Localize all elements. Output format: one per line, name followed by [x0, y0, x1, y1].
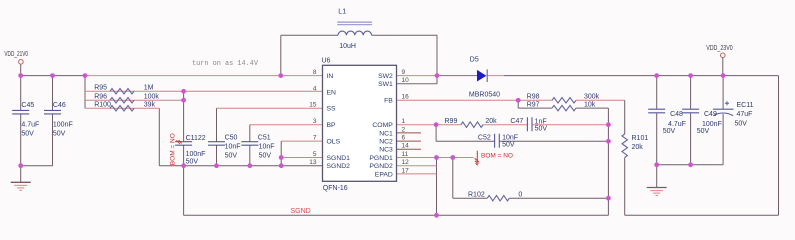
- junction VDD_23V0 EC11: [721, 73, 726, 78]
- svg-text:4: 4: [313, 85, 317, 92]
- wire C45 bottom: [20, 114, 22, 166]
- svg-text:R98: R98: [527, 94, 540, 101]
- wire C46 bottom: [52, 114, 54, 166]
- junction VDD_21V0 / C45: [18, 73, 23, 78]
- wire SW1 row: [397, 83, 438, 85]
- svg-text:VDD_23V0: VDD_23V0: [706, 45, 733, 52]
- wire diode rail to right edge: [504, 75, 779, 77]
- svg-text:R101: R101: [632, 135, 649, 142]
- junction C51 bottom rail: [247, 163, 252, 168]
- svg-text:3: 3: [313, 118, 317, 125]
- wire C46 top: [52, 76, 54, 111]
- svg-text:EPAD: EPAD: [375, 171, 393, 178]
- wire diode cathode stub: [487, 75, 504, 77]
- junction divider vertical: [83, 73, 88, 78]
- wire R98 vertical down to R101: [624, 100, 626, 134]
- svg-text:C45: C45: [21, 102, 34, 109]
- capacitor C49 plates: [682, 109, 699, 113]
- svg-text:SGND2: SGND2: [327, 163, 351, 170]
- wire C47 right plate to vertical: [532, 124, 609, 126]
- no-connect marker on C1122: [177, 140, 182, 144]
- svg-text:BP: BP: [327, 122, 337, 129]
- svg-text:50V: 50V: [735, 120, 748, 127]
- wire C52 row right: [499, 140, 608, 142]
- resistor R100 zigzag: [110, 106, 134, 111]
- svg-text:NC2: NC2: [379, 139, 393, 146]
- capacitor EC11 top plate: [713, 108, 734, 110]
- wire EPAD row: [397, 173, 437, 175]
- resistor R97 zigzag: [552, 105, 576, 110]
- junction SW2 loop: [435, 73, 440, 78]
- junction OLS vertical at SGND1: [279, 155, 284, 160]
- resistor R98 zigzag: [552, 98, 576, 103]
- wire PGND-EPAD vertical to bottom rail: [436, 158, 438, 216]
- wire left ground stem: [20, 166, 22, 183]
- svg-text:SGND1: SGND1: [327, 155, 351, 162]
- svg-text:0: 0: [518, 192, 522, 199]
- svg-text:50V: 50V: [225, 153, 238, 160]
- junction EPAD bottom rail: [434, 213, 439, 218]
- wire top rail VDD_21V0 left part: [21, 75, 85, 77]
- svg-text:VDD_21V0: VDD_21V0: [4, 51, 28, 58]
- capacitor C47 plates: [527, 117, 532, 131]
- resistor R102 zigzag: [487, 196, 509, 201]
- IC U6 body QFN-16: [323, 65, 397, 181]
- svg-text:COMP: COMP: [372, 122, 393, 129]
- junction C50 bottom rail: [214, 163, 219, 168]
- svg-text:R100: R100: [94, 102, 111, 109]
- wire C49 top: [690, 76, 692, 110]
- svg-text:10: 10: [402, 77, 410, 84]
- no-connect marker on PGND1 branch: [475, 151, 480, 165]
- wire inductor loop top left: [281, 34, 338, 36]
- wire R97 row: [518, 107, 552, 109]
- svg-text:39k: 39k: [144, 102, 156, 109]
- wire left ground row: [21, 165, 53, 167]
- svg-text:4.7uF: 4.7uF: [668, 121, 686, 128]
- svg-text:100nF: 100nF: [186, 151, 206, 158]
- svg-text:20k: 20k: [485, 118, 497, 125]
- svg-text:BOM = NO: BOM = NO: [170, 133, 177, 165]
- junction FB R98 R97: [516, 98, 521, 103]
- svg-text:50V: 50V: [535, 126, 548, 133]
- wire COMP row through R99 to C47: [397, 124, 462, 126]
- wire inductor loop top right: [372, 34, 437, 36]
- junction COMP node: [434, 122, 439, 127]
- svg-text:R95: R95: [94, 85, 107, 92]
- wire diode anode segment: [437, 75, 478, 77]
- svg-text:PGND2: PGND2: [369, 163, 393, 170]
- svg-text:1: 1: [402, 118, 406, 125]
- wire C50 top: [216, 108, 218, 141]
- svg-text:SW1: SW1: [378, 81, 393, 88]
- wire bottom SGND rail left piece: [184, 214, 609, 216]
- wire C45 top: [20, 76, 22, 111]
- power symbol circle VDD_21V0: [19, 60, 24, 65]
- wire top rail to IN pin: [85, 75, 323, 77]
- svg-text:100k: 100k: [144, 93, 160, 100]
- svg-text:OLS: OLS: [327, 139, 341, 146]
- svg-text:10uH: 10uH: [339, 43, 356, 50]
- svg-text:16: 16: [402, 94, 410, 101]
- junction C48 ground row: [654, 162, 659, 167]
- svg-text:12: 12: [402, 159, 410, 166]
- capacitor EC11 plus sign: [725, 101, 729, 105]
- wire C49 bottom: [690, 113, 692, 165]
- wire BP row: [250, 124, 323, 126]
- capacitor C46 plates: [44, 110, 61, 114]
- wire SGND1 row: [281, 157, 322, 159]
- wire EC11 bottom: [722, 114, 724, 165]
- svg-text:R96: R96: [94, 93, 107, 100]
- wire EN row to IC: [159, 90, 310, 92]
- svg-text:C50: C50: [225, 135, 238, 142]
- svg-text:C47: C47: [510, 118, 523, 125]
- svg-text:10nF: 10nF: [225, 143, 241, 150]
- svg-text:50V: 50V: [502, 141, 515, 148]
- inductor L1 core lines: [337, 22, 372, 25]
- svg-text:50V: 50V: [186, 159, 199, 166]
- svg-text:100nF: 100nF: [53, 122, 73, 129]
- junction C1122 bottom rail: [181, 163, 186, 168]
- svg-text:11: 11: [402, 151, 409, 158]
- svg-text:2: 2: [402, 126, 406, 133]
- junction C52 right: [606, 139, 611, 144]
- wire right edge vertical: [778, 76, 780, 216]
- capacitor C1122 plates: [175, 142, 192, 146]
- capacitor C52 plates: [495, 134, 500, 148]
- svg-text:R97: R97: [527, 102, 540, 109]
- svg-text:U6: U6: [322, 58, 331, 65]
- svg-text:17: 17: [402, 167, 410, 174]
- wire inductor loop right vertical: [436, 35, 438, 84]
- junction R96 right: [181, 98, 186, 103]
- pin EN stub: [310, 90, 323, 92]
- svg-text:5: 5: [313, 151, 317, 158]
- wire R101 bottom to SGND rail: [624, 157, 626, 215]
- svg-text:1M: 1M: [144, 85, 154, 92]
- wire C50 bottom: [216, 145, 218, 166]
- wire C52 row left: [436, 140, 495, 142]
- wire C51 top: [249, 125, 251, 142]
- resistor R99 zigzag: [461, 122, 483, 127]
- svg-text:8: 8: [313, 69, 317, 76]
- ground symbol left: [11, 182, 31, 190]
- svg-text:47uF: 47uF: [737, 111, 753, 118]
- svg-text:FB: FB: [384, 98, 393, 105]
- svg-text:4.7uF: 4.7uF: [21, 122, 39, 129]
- junction PGND1 R102 branch: [450, 155, 455, 160]
- wire R100 row: [85, 107, 159, 109]
- wire R102 left vertical: [452, 158, 454, 199]
- svg-text:50V: 50V: [21, 131, 34, 138]
- svg-text:turn on as 14.4V: turn on as 14.4V: [192, 60, 258, 68]
- resistor R95 zigzag: [110, 89, 134, 94]
- svg-text:10k: 10k: [584, 102, 596, 109]
- junction C46 top: [50, 73, 55, 78]
- svg-text:100nF: 100nF: [702, 121, 722, 128]
- wire right ground stem: [656, 165, 658, 187]
- svg-text:10nF: 10nF: [259, 143, 275, 150]
- svg-text:7: 7: [313, 135, 317, 142]
- svg-text:EN: EN: [327, 89, 337, 96]
- wire FB row to R98: [397, 99, 553, 101]
- wire EN node vertical to C1122: [183, 91, 185, 141]
- wire EN row R95 pins: [85, 90, 159, 92]
- resistor R101 vertical zigzag: [622, 134, 627, 157]
- junction C49 rail: [688, 73, 693, 78]
- junction OLS vertical at rail: [279, 163, 284, 168]
- svg-text:SGND: SGND: [291, 208, 311, 215]
- svg-text:300k: 300k: [584, 94, 600, 101]
- junction C49 ground row: [688, 162, 693, 167]
- wire R97 drop from FB node: [517, 100, 519, 108]
- svg-text:C1122: C1122: [186, 135, 206, 142]
- resistor R96 zigzag: [110, 98, 134, 103]
- wire inductor loop left vertical: [280, 35, 282, 75]
- wire C48 top: [656, 76, 658, 110]
- diode D5: [477, 69, 487, 82]
- svg-text:1nF: 1nF: [535, 118, 547, 125]
- svg-text:50V: 50V: [663, 128, 676, 135]
- inductor L1 coil: [338, 31, 372, 35]
- wire right ground row: [657, 164, 723, 166]
- svg-text:C49: C49: [704, 111, 717, 118]
- svg-text:R99: R99: [445, 118, 458, 125]
- svg-text:C52: C52: [478, 135, 491, 142]
- pin NC2 stub: [397, 140, 422, 142]
- wire R96 right: [159, 99, 183, 101]
- svg-text:PGND1: PGND1: [369, 155, 393, 162]
- svg-text:6: 6: [402, 135, 406, 142]
- junction C48 rail: [654, 73, 659, 78]
- svg-text:20k: 20k: [632, 144, 644, 151]
- svg-text:R102: R102: [468, 192, 485, 199]
- svg-text:BOM = NO: BOM = NO: [481, 152, 513, 159]
- svg-text:C48: C48: [670, 111, 683, 118]
- ground symbol right: [647, 188, 667, 196]
- junction C47 right: [606, 122, 611, 127]
- wire divider vertical from rail: [84, 76, 86, 109]
- wire R96 row pins: [85, 99, 159, 101]
- svg-text:D5: D5: [470, 57, 479, 64]
- wire R99 to C47 left plate: [483, 124, 527, 126]
- wire VDD_23V0 stem: [722, 58, 724, 76]
- wire SS row: [217, 107, 323, 109]
- wire OLS row: [281, 140, 322, 142]
- wire PGND2 row: [397, 165, 437, 167]
- wire right mid vertical to bottom rail: [607, 108, 609, 215]
- svg-text:9: 9: [402, 69, 406, 76]
- wire COMP vertical to C52 row: [435, 125, 437, 142]
- svg-text:50V: 50V: [259, 153, 272, 160]
- svg-text:15: 15: [309, 102, 317, 109]
- wire C1122 column down to bottom SGND rail: [183, 166, 185, 216]
- svg-text:NC1: NC1: [379, 130, 393, 137]
- wire SW2 row: [397, 75, 438, 77]
- wire C1122 bottom: [183, 145, 185, 166]
- wire VDD_21V0 stem: [20, 64, 22, 76]
- svg-text:MBR0540: MBR0540: [469, 91, 500, 98]
- wire C48 bottom: [656, 113, 658, 165]
- wire R102 row right: [509, 197, 608, 199]
- svg-text:50V: 50V: [53, 131, 66, 138]
- junction EN node: [181, 89, 186, 94]
- svg-text:14: 14: [402, 143, 410, 150]
- wire PGND1 row to no-connect: [397, 157, 474, 159]
- junction PGND1 vertical: [434, 155, 439, 160]
- junction inductor loop left: [278, 73, 283, 78]
- svg-text:50V: 50V: [697, 128, 710, 135]
- svg-text:EC11: EC11: [737, 102, 754, 109]
- wire R98 right to vertical: [576, 99, 625, 101]
- svg-text:C51: C51: [258, 135, 271, 142]
- svg-text:L1: L1: [338, 9, 346, 16]
- wire EC11 top: [722, 76, 724, 110]
- wire OLS vertical to SGND rail: [280, 141, 282, 166]
- wire bottom SGND rail right piece: [625, 214, 779, 216]
- svg-text:QFN-16: QFN-16: [323, 185, 348, 192]
- svg-text:IN: IN: [327, 73, 334, 80]
- capacitor EC11 curved bottom plate: [713, 113, 733, 116]
- svg-text:SS: SS: [327, 106, 337, 113]
- junction R102 right: [606, 196, 611, 201]
- capacitor C45 plates: [12, 110, 29, 114]
- wire caps SGND rail: [159, 165, 322, 167]
- junction left ground: [18, 163, 23, 168]
- pin NC1 stub: [397, 132, 422, 134]
- pin NC3 stub: [397, 148, 422, 150]
- power symbol circle VDD_23V0: [721, 53, 726, 58]
- svg-text:13: 13: [309, 159, 317, 166]
- capacitor C51 plates: [241, 142, 258, 146]
- svg-text:NC3: NC3: [379, 147, 393, 154]
- wire R102 row left: [453, 197, 488, 199]
- svg-text:C46: C46: [53, 102, 66, 109]
- wire C51 bottom: [249, 145, 251, 166]
- wire R100 vertical to SGND rail: [158, 108, 160, 165]
- svg-text:SW2: SW2: [378, 73, 393, 80]
- wire R97 right to vertical: [576, 107, 608, 109]
- capacitor C48 plates: [648, 109, 665, 113]
- capacitor C50 plates: [208, 142, 225, 146]
